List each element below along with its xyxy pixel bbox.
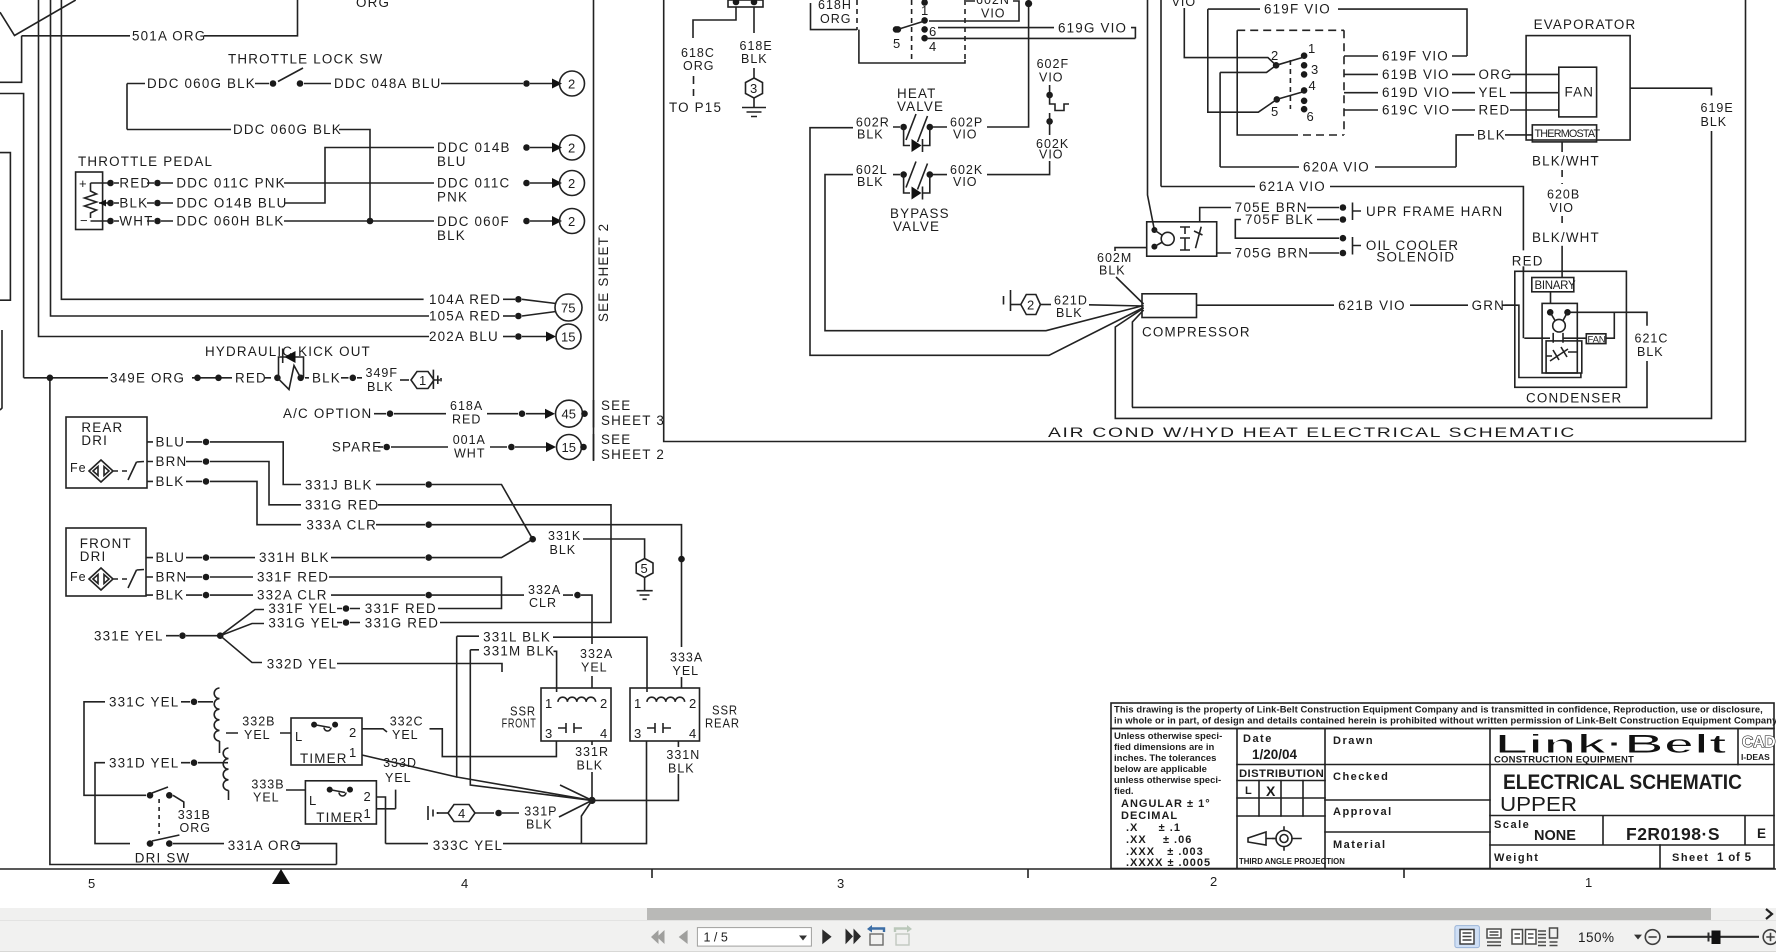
svg-text:VIO: VIO — [1172, 0, 1197, 9]
svg-text:1: 1 — [419, 373, 426, 388]
svg-text:DDC O14B BLU: DDC O14B BLU — [176, 196, 287, 211]
svg-text:.XXXX ± .0005: .XXXX ± .0005 — [1126, 857, 1211, 869]
svg-text:DDC 060G BLK: DDC 060G BLK — [147, 76, 256, 91]
svg-text:BRN: BRN — [156, 570, 188, 585]
svg-text:−: − — [80, 213, 88, 228]
svg-text:618C: 618C — [681, 46, 715, 60]
svg-text:331H BLK: 331H BLK — [259, 550, 330, 565]
svg-text:1 / 5: 1 / 5 — [704, 931, 728, 945]
svg-text:BLK: BLK — [156, 588, 185, 603]
svg-text:BLK: BLK — [857, 128, 884, 142]
svg-text:618A: 618A — [450, 399, 483, 413]
svg-text:RED: RED — [1479, 103, 1511, 118]
svg-text:DRI SW: DRI SW — [135, 851, 191, 866]
svg-text:VIO: VIO — [953, 175, 978, 189]
svg-text:75: 75 — [561, 301, 575, 316]
svg-text:BLU: BLU — [156, 435, 186, 450]
svg-text:619F VIO: 619F VIO — [1264, 2, 1331, 17]
svg-text:RED: RED — [119, 176, 151, 191]
svg-text:BLK/WHT: BLK/WHT — [1532, 230, 1600, 245]
svg-text:Checked: Checked — [1333, 771, 1389, 783]
svg-text:L: L — [309, 793, 316, 808]
svg-text:3: 3 — [750, 81, 757, 96]
svg-text:331L BLK: 331L BLK — [483, 630, 551, 645]
svg-text:A/C OPTION: A/C OPTION — [283, 406, 372, 421]
svg-text:618E: 618E — [740, 39, 773, 53]
svg-text:SHEET 3: SHEET 3 — [601, 413, 665, 428]
svg-text:COMPRESSOR: COMPRESSOR — [1142, 325, 1251, 340]
svg-text:DDC 048A BLU: DDC 048A BLU — [334, 76, 441, 91]
svg-text:TIMER: TIMER — [300, 751, 348, 766]
svg-text:2: 2 — [364, 789, 371, 804]
svg-text:4: 4 — [929, 39, 936, 54]
svg-text:BLU: BLU — [437, 154, 467, 169]
svg-text:BINARY: BINARY — [1535, 280, 1576, 292]
svg-text:DISTRIBUTION: DISTRIBUTION — [1239, 768, 1324, 780]
svg-text:1: 1 — [349, 745, 356, 760]
svg-text:BLK: BLK — [1637, 345, 1664, 359]
svg-text:FAN: FAN — [1565, 85, 1595, 100]
svg-text:VALVE: VALVE — [897, 99, 944, 114]
svg-text:1 of 5: 1 of 5 — [1717, 852, 1752, 864]
svg-text:331R: 331R — [575, 745, 609, 759]
svg-text:331F YEL: 331F YEL — [268, 601, 337, 616]
svg-text:BLK: BLK — [857, 175, 884, 189]
svg-text:620A VIO: 620A VIO — [1303, 160, 1370, 175]
svg-text:BLK: BLK — [1099, 264, 1126, 278]
svg-text:SEE: SEE — [601, 432, 631, 447]
svg-text:VALVE: VALVE — [893, 219, 940, 234]
svg-text:RED: RED — [235, 371, 267, 386]
svg-text:BLK: BLK — [437, 228, 466, 243]
svg-text:BLK: BLK — [668, 762, 695, 776]
svg-text:331A ORG: 331A ORG — [228, 838, 302, 853]
svg-text:UPPER: UPPER — [1500, 794, 1577, 816]
svg-text:BLK: BLK — [526, 818, 553, 832]
svg-text:104A RED: 104A RED — [429, 292, 501, 307]
svg-text:001A: 001A — [453, 433, 486, 447]
svg-text:TIMER: TIMER — [316, 810, 364, 825]
svg-text:SEE: SEE — [601, 398, 631, 413]
svg-text:VIO: VIO — [953, 128, 978, 142]
svg-text:331M BLK: 331M BLK — [483, 644, 555, 659]
svg-text:333D: 333D — [383, 756, 417, 770]
svg-text:inches. The tolerances: inches. The tolerances — [1114, 753, 1216, 764]
svg-text:fied dimensions are in: fied dimensions are in — [1114, 742, 1214, 753]
svg-text:BLK: BLK — [156, 474, 185, 489]
svg-text:BLK: BLK — [577, 759, 604, 773]
svg-text:333A: 333A — [670, 651, 703, 665]
svg-text:619B VIO: 619B VIO — [1382, 67, 1450, 82]
svg-text:YEL: YEL — [392, 728, 419, 742]
svg-text:602F: 602F — [1037, 57, 1070, 71]
svg-text:4: 4 — [1309, 78, 1316, 93]
svg-text:331F RED: 331F RED — [257, 570, 329, 585]
svg-text:UPR FRAME HARN: UPR FRAME HARN — [1366, 204, 1503, 219]
svg-text:SEE SHEET 2: SEE SHEET 2 — [596, 223, 611, 322]
svg-text:Drawn: Drawn — [1333, 735, 1374, 747]
svg-text:VIO: VIO — [1550, 201, 1575, 215]
svg-text:DECIMAL: DECIMAL — [1121, 810, 1178, 822]
svg-text:332A: 332A — [528, 583, 561, 597]
svg-text:YEL: YEL — [673, 664, 700, 678]
svg-text:BLK: BLK — [550, 543, 577, 557]
svg-text:619F VIO: 619F VIO — [1382, 49, 1449, 64]
svg-text:105A RED: 105A RED — [429, 309, 501, 324]
svg-text:332C: 332C — [390, 715, 424, 729]
svg-text:DDC 014B: DDC 014B — [437, 140, 511, 155]
svg-text:ORG: ORG — [356, 0, 390, 10]
svg-text:.XX ± .06: .XX ± .06 — [1126, 834, 1192, 846]
svg-text:3: 3 — [1311, 62, 1318, 77]
svg-text:WHT: WHT — [119, 214, 153, 229]
svg-text:CONSTRUCTION EQUIPMENT: CONSTRUCTION EQUIPMENT — [1494, 755, 1634, 766]
svg-text:2: 2 — [1027, 298, 1034, 313]
svg-text:THROTTLE LOCK SW: THROTTLE LOCK SW — [228, 52, 383, 67]
svg-text:621A VIO: 621A VIO — [1259, 179, 1326, 194]
svg-text:331J BLK: 331J BLK — [305, 478, 373, 493]
svg-text:L: L — [295, 729, 302, 744]
svg-text:621B VIO: 621B VIO — [1338, 298, 1406, 313]
svg-text:332D YEL: 332D YEL — [267, 656, 337, 671]
svg-text:CAD: CAD — [1742, 734, 1776, 751]
svg-text:REAR: REAR — [705, 717, 740, 731]
svg-text:+: + — [79, 176, 87, 191]
svg-text:SSR: SSR — [712, 704, 738, 718]
svg-text:1: 1 — [364, 806, 371, 821]
svg-text:4: 4 — [461, 876, 468, 891]
svg-text:2: 2 — [689, 696, 696, 711]
svg-text:4: 4 — [689, 726, 696, 741]
svg-text:3: 3 — [837, 876, 844, 891]
svg-text:BLK: BLK — [119, 196, 148, 211]
svg-text:2: 2 — [349, 725, 356, 740]
svg-text:705F BLK: 705F BLK — [1245, 212, 1314, 227]
svg-text:GRN: GRN — [1472, 298, 1505, 313]
svg-text:501A ORG: 501A ORG — [132, 29, 206, 44]
svg-text:BLK: BLK — [312, 371, 341, 386]
svg-text:Date: Date — [1243, 733, 1273, 745]
svg-text:PNK: PNK — [437, 190, 468, 205]
svg-text:Approval: Approval — [1333, 806, 1393, 818]
svg-text:AIR COND W/HYD HEAT ELECTRICAL: AIR COND W/HYD HEAT ELECTRICAL SCHEMATIC — [1048, 425, 1576, 440]
svg-text:TO P15: TO P15 — [669, 100, 722, 115]
svg-text:619E: 619E — [1701, 101, 1734, 115]
svg-text:6: 6 — [1307, 109, 1314, 124]
svg-text:CLR: CLR — [529, 596, 557, 610]
svg-text:BRN: BRN — [156, 454, 188, 469]
svg-text:below are applicable: below are applicable — [1114, 764, 1207, 775]
svg-text:SHEET 2: SHEET 2 — [601, 447, 665, 462]
svg-text:L: L — [1245, 785, 1252, 797]
svg-text:331G YEL: 331G YEL — [268, 615, 339, 630]
svg-text:VIO: VIO — [981, 7, 1006, 21]
svg-text:in whole or in part, of design: in whole or in part, of design and detai… — [1114, 715, 1776, 726]
svg-text:2: 2 — [1210, 874, 1217, 889]
svg-text:2: 2 — [568, 176, 575, 191]
svg-text:333A CLR: 333A CLR — [306, 518, 377, 533]
svg-text:DDC 011C PNK: DDC 011C PNK — [176, 176, 285, 191]
svg-text:BLK: BLK — [367, 380, 394, 394]
svg-text:SOLENOID: SOLENOID — [1376, 250, 1455, 265]
svg-text:5: 5 — [641, 561, 648, 576]
svg-text:2: 2 — [568, 77, 575, 92]
svg-text:5: 5 — [893, 36, 900, 51]
svg-text:BLK: BLK — [1477, 128, 1506, 143]
svg-text:332A: 332A — [580, 647, 613, 661]
svg-text:331F RED: 331F RED — [365, 601, 437, 616]
svg-text:X: X — [1266, 783, 1276, 799]
svg-text:202A BLU: 202A BLU — [429, 329, 499, 344]
svg-text:349E ORG: 349E ORG — [110, 371, 185, 386]
svg-text:331B: 331B — [178, 808, 211, 822]
svg-text:FRONT: FRONT — [502, 717, 537, 731]
svg-text:I-DEAS: I-DEAS — [1741, 752, 1770, 762]
svg-text:F2R0198·S: F2R0198·S — [1626, 824, 1720, 844]
svg-text:331G RED: 331G RED — [305, 498, 379, 513]
svg-text:2: 2 — [1271, 48, 1278, 63]
svg-text:619C VIO: 619C VIO — [1382, 103, 1450, 118]
svg-text:.X ± .1: .X ± .1 — [1126, 822, 1181, 834]
svg-text:EVAPORATOR: EVAPORATOR — [1534, 17, 1637, 32]
svg-text:2: 2 — [568, 141, 575, 156]
svg-text:Unless otherwise speci-: Unless otherwise speci- — [1114, 731, 1222, 742]
svg-text:DDC 011C: DDC 011C — [437, 176, 510, 191]
svg-text:1: 1 — [1308, 41, 1315, 56]
svg-text:DDC 060F: DDC 060F — [437, 214, 510, 229]
svg-text:VIO: VIO — [1039, 148, 1064, 162]
svg-text:4: 4 — [600, 726, 607, 741]
svg-text:CONDENSER: CONDENSER — [1526, 391, 1622, 406]
svg-text:3: 3 — [545, 726, 552, 741]
svg-text:333C YEL: 333C YEL — [433, 838, 503, 853]
svg-text:333B: 333B — [251, 778, 284, 792]
svg-text:45: 45 — [562, 407, 576, 422]
svg-text:ORG: ORG — [180, 821, 211, 835]
svg-text:ANGULAR ± 1°: ANGULAR ± 1° — [1121, 798, 1211, 810]
svg-text:705G BRN: 705G BRN — [1235, 246, 1309, 261]
svg-text:DRI: DRI — [80, 549, 107, 564]
svg-text:BLK: BLK — [1701, 115, 1728, 129]
svg-text:3: 3 — [634, 726, 641, 741]
svg-text:2: 2 — [568, 214, 575, 229]
svg-text:1: 1 — [921, 3, 928, 18]
svg-text:4: 4 — [458, 806, 465, 821]
svg-text:FAN: FAN — [1588, 334, 1606, 345]
svg-text:NONE: NONE — [1534, 828, 1576, 844]
svg-text:Fe: Fe — [70, 570, 87, 584]
svg-text:331D YEL: 331D YEL — [109, 756, 179, 771]
svg-text:150%: 150% — [1578, 930, 1615, 945]
svg-text:BLK: BLK — [741, 52, 768, 66]
svg-text:DDC 060G BLK: DDC 060G BLK — [233, 122, 342, 137]
svg-text:Scale: Scale — [1494, 819, 1530, 831]
svg-text:331P: 331P — [524, 805, 557, 819]
svg-text:1/20/04: 1/20/04 — [1252, 747, 1298, 762]
svg-text:ORG: ORG — [820, 12, 851, 26]
svg-text:15: 15 — [562, 440, 576, 455]
svg-text:fied.: fied. — [1114, 786, 1134, 797]
svg-text:ORG: ORG — [683, 59, 714, 73]
svg-text:349F: 349F — [366, 366, 399, 380]
svg-text:Sheet: Sheet — [1672, 852, 1709, 864]
svg-text:SPARE: SPARE — [332, 440, 382, 455]
svg-text:BLK: BLK — [1056, 306, 1083, 320]
svg-text:1: 1 — [545, 696, 552, 711]
svg-text:unless otherwise speci-: unless otherwise speci- — [1114, 775, 1221, 786]
svg-text:YEL: YEL — [581, 661, 608, 675]
svg-text:6: 6 — [929, 24, 936, 39]
svg-text:ORG: ORG — [1479, 67, 1513, 82]
svg-text:YEL: YEL — [244, 728, 271, 742]
svg-text:Weight: Weight — [1494, 852, 1539, 864]
svg-text:RED: RED — [1512, 254, 1544, 269]
svg-text:619G VIO: 619G VIO — [1058, 21, 1127, 36]
svg-text:VIO: VIO — [1039, 71, 1064, 85]
svg-text:618H: 618H — [818, 0, 852, 12]
svg-text:620B: 620B — [1547, 188, 1580, 202]
svg-text:ELECTRICAL SCHEMATIC: ELECTRICAL SCHEMATIC — [1503, 771, 1742, 794]
svg-text:332B: 332B — [242, 715, 275, 729]
svg-text:THERMOSTAT: THERMOSTAT — [1535, 128, 1601, 140]
svg-text:5: 5 — [1271, 104, 1278, 119]
svg-text:BLK/WHT: BLK/WHT — [1532, 154, 1600, 169]
svg-text:BLU: BLU — [156, 550, 186, 565]
svg-text:331G RED: 331G RED — [365, 615, 439, 630]
svg-text:331K: 331K — [548, 529, 581, 543]
svg-text:15: 15 — [561, 330, 575, 345]
svg-text:331C YEL: 331C YEL — [109, 695, 179, 710]
svg-text:THIRD ANGLE PROJECTION: THIRD ANGLE PROJECTION — [1239, 857, 1345, 866]
svg-text:THROTTLE PEDAL: THROTTLE PEDAL — [78, 154, 213, 169]
svg-text:Material: Material — [1333, 839, 1387, 851]
svg-text:RED: RED — [452, 413, 481, 427]
svg-text:619D VIO: 619D VIO — [1382, 85, 1450, 100]
svg-text:WHT: WHT — [454, 447, 485, 461]
svg-text:E: E — [1757, 826, 1766, 841]
svg-text:1: 1 — [634, 696, 641, 711]
svg-text:DDC 060H BLK: DDC 060H BLK — [176, 214, 284, 229]
svg-text:331N: 331N — [666, 748, 700, 762]
svg-text:YEL: YEL — [253, 791, 280, 805]
svg-text:1: 1 — [1585, 875, 1592, 890]
svg-text:DRI: DRI — [81, 433, 108, 448]
svg-text:2: 2 — [600, 696, 607, 711]
svg-text:Fe: Fe — [70, 461, 87, 475]
svg-text:621C: 621C — [1635, 331, 1669, 345]
svg-text:YEL: YEL — [1479, 85, 1508, 100]
svg-text:YEL: YEL — [385, 771, 412, 785]
svg-text:331E YEL: 331E YEL — [94, 629, 164, 644]
svg-text:5: 5 — [88, 876, 95, 891]
svg-text:This drawing is the property o: This drawing is the property of Link-Bel… — [1114, 704, 1763, 715]
